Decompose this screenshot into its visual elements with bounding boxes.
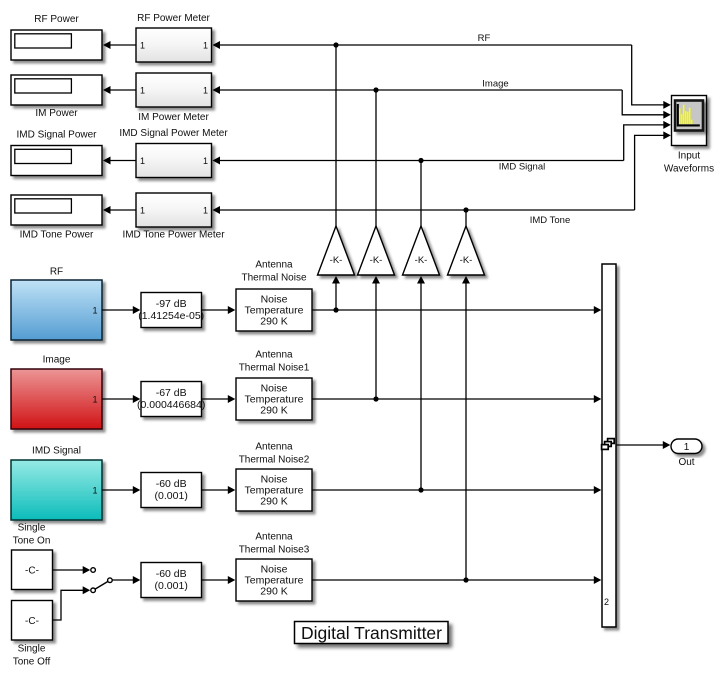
svg-text:IMD Tone: IMD Tone	[530, 215, 570, 226]
wire gain3 input vertical	[420, 283, 422, 490]
svg-text:IMD Tone Power: IMD Tone Power	[20, 230, 94, 241]
arrowhead into noise4	[228, 576, 236, 584]
svg-text:-K-: -K-	[415, 255, 428, 266]
arrowhead gain1 input	[332, 276, 340, 284]
arrowhead into noise1	[228, 306, 236, 314]
display IM Power	[11, 75, 102, 119]
wire IMD Signal net vertical to scope	[624, 125, 666, 161]
wire gain4 output vertical	[465, 210, 467, 226]
svg-text:Single: Single	[18, 644, 46, 655]
arrowhead into display3	[103, 157, 111, 165]
outport Out	[671, 439, 702, 468]
svg-text:1: 1	[140, 156, 145, 166]
constant Single Tone On	[12, 523, 53, 590]
gain block -60 dB row3	[141, 473, 202, 508]
svg-text:-K-: -K-	[330, 255, 343, 266]
subsystem RF Power Meter	[136, 13, 212, 62]
wire const Off to switch	[53, 590, 85, 620]
svg-text:290 K: 290 K	[260, 405, 287, 417]
junction dot Image net	[373, 87, 378, 92]
junction dot noise2 out	[373, 396, 378, 401]
arrowhead into meter2	[213, 86, 221, 94]
svg-text:Thermal Noise: Thermal Noise	[241, 273, 306, 284]
arrowhead into dB3	[133, 486, 141, 494]
wire gain3 output vertical	[420, 161, 422, 227]
svg-text:IMD Tone Power Meter: IMD Tone Power Meter	[122, 230, 225, 241]
source block RF	[11, 267, 102, 341]
arrowhead into display2	[103, 86, 111, 94]
svg-text:2: 2	[604, 597, 609, 607]
wire IMD Tone net vertical to scope	[635, 135, 666, 210]
arrowhead into concat row1	[594, 306, 602, 314]
svg-text:1: 1	[140, 85, 145, 95]
svg-text:IM Power Meter: IM Power Meter	[138, 112, 209, 123]
svg-text:1: 1	[203, 40, 208, 50]
arrowhead into meter3	[213, 157, 221, 165]
wire gain1 output vertical	[335, 45, 337, 226]
gain triangle -K- 4	[448, 226, 485, 275]
svg-text:IMD Signal Power Meter: IMD Signal Power Meter	[119, 128, 228, 139]
svg-text:(0.001): (0.001)	[155, 490, 188, 502]
wire concat to Out	[616, 444, 665, 446]
svg-text:1: 1	[140, 40, 145, 50]
arrowhead switch upper contact	[83, 566, 91, 574]
svg-text:Input: Input	[678, 151, 700, 162]
svg-text:Thermal Noise3: Thermal Noise3	[239, 545, 310, 556]
svg-text:Out: Out	[678, 457, 694, 468]
manual switch	[91, 568, 112, 593]
svg-text:290 K: 290 K	[260, 316, 287, 328]
svg-text:1: 1	[92, 394, 97, 404]
junction dot RF net	[333, 42, 338, 47]
gain block -97 dB	[138, 293, 204, 328]
svg-text:Waveforms: Waveforms	[664, 164, 714, 175]
arrowhead into dB4	[133, 576, 141, 584]
constant Single Tone Off	[12, 601, 53, 668]
gain block -60 dB row4	[141, 563, 202, 598]
svg-text:IM Power: IM Power	[35, 108, 78, 119]
scope icon spectrum	[675, 101, 703, 131]
subsystem IMD Signal Power Meter	[119, 128, 228, 178]
wire meter1 to display1	[109, 44, 136, 46]
concatenate block	[602, 264, 616, 627]
arrowhead into noise3	[228, 486, 236, 494]
arrowhead into meter4	[213, 206, 221, 214]
wire IMD source to dB3	[102, 489, 135, 491]
subsystem IMD Tone Power Meter	[122, 193, 225, 241]
svg-text:-60 dB: -60 dB	[156, 478, 187, 490]
svg-text:Digital Transmitter: Digital Transmitter	[301, 623, 442, 643]
svg-text:1: 1	[92, 485, 97, 495]
junction dot IMD Signal net	[418, 158, 423, 163]
svg-text:Thermal Noise1: Thermal Noise1	[239, 363, 310, 374]
svg-text:Tone Off: Tone Off	[13, 657, 51, 668]
wire gain2 input vertical	[375, 283, 377, 399]
svg-text:290 K: 290 K	[260, 586, 287, 598]
svg-text:Antenna: Antenna	[255, 442, 293, 453]
wire RF net horizontal	[219, 44, 632, 46]
wire Image net horizontal	[219, 89, 622, 91]
svg-text:RF: RF	[478, 33, 491, 44]
svg-text:-67 dB: -67 dB	[156, 387, 187, 399]
wire meter3 to display3	[109, 160, 136, 162]
arrowhead scope port2	[663, 111, 671, 119]
wire noise3 to concat	[312, 489, 596, 491]
wire RF net vertical to scope	[632, 45, 666, 105]
wire dB1 to noise1	[202, 309, 230, 311]
wire noise4 to concat	[312, 579, 596, 581]
arrowhead into noise2	[228, 395, 236, 403]
source block Image	[11, 355, 102, 430]
arrowhead switch lower contact	[83, 586, 91, 594]
wire gain4 input vertical	[465, 283, 467, 580]
arrowhead into meter1	[213, 41, 221, 49]
arrowhead into concat row2	[594, 395, 602, 403]
arrowhead into display4	[103, 206, 111, 214]
svg-text:1: 1	[203, 85, 208, 95]
svg-text:1: 1	[203, 156, 208, 166]
svg-text:Antenna: Antenna	[255, 350, 293, 361]
wire RF source to dB1	[102, 309, 135, 311]
gain triangle -K- 2	[358, 226, 395, 275]
arrowhead gain2 input	[372, 276, 380, 284]
wire gain2 output vertical	[375, 90, 377, 226]
wire dB3 to noise3	[202, 489, 230, 491]
svg-text:-K-: -K-	[460, 255, 473, 266]
wire Image source to dB2	[102, 398, 135, 400]
svg-text:Antenna: Antenna	[255, 532, 293, 543]
svg-text:Single: Single	[18, 523, 46, 534]
svg-text:IMD Signal: IMD Signal	[32, 446, 81, 457]
svg-text:-C-: -C-	[25, 616, 39, 627]
arrowhead into concat row3	[594, 486, 602, 494]
junction dot noise4 out	[463, 577, 468, 582]
subsystem IM Power Meter	[136, 73, 212, 123]
svg-text:Image: Image	[43, 355, 71, 366]
junction dot noise3 out	[418, 487, 423, 492]
svg-text:-C-: -C-	[25, 566, 39, 577]
concatenate stack icon	[602, 439, 615, 450]
arrowhead scope port1	[663, 101, 671, 109]
arrowhead gain3 input	[417, 276, 425, 284]
svg-text:IMD Signal: IMD Signal	[499, 162, 545, 173]
gain block -67 dB	[137, 382, 205, 417]
wire dB4 to noise4	[202, 579, 230, 581]
arrowhead into concat row4	[594, 576, 602, 584]
svg-text:290 K: 290 K	[260, 496, 287, 508]
svg-text:IMD Signal Power: IMD Signal Power	[16, 130, 97, 141]
svg-text:1: 1	[203, 205, 208, 215]
svg-text:(0.000446684): (0.000446684)	[137, 399, 205, 411]
arrowhead into display1	[103, 41, 111, 49]
svg-text:RF Power: RF Power	[34, 14, 79, 25]
wire dB2 to noise2	[202, 398, 230, 400]
wire IMD Tone net horizontal	[219, 209, 635, 211]
arrowhead into Out	[663, 441, 671, 449]
wire meter2 to display2	[109, 89, 136, 91]
junction dot IMD Tone net	[463, 207, 468, 212]
wire IMD Signal net horizontal	[219, 160, 624, 162]
svg-text:-60 dB: -60 dB	[156, 568, 187, 580]
svg-text:Tone On: Tone On	[13, 536, 51, 547]
wire meter4 to display4	[109, 209, 136, 211]
display IMD Signal Power	[11, 130, 102, 176]
subsystem Antenna Thermal Noise1	[236, 350, 312, 421]
wire gain1 input vertical	[335, 283, 337, 310]
arrowhead scope port4	[663, 131, 671, 139]
arrowhead into dB2	[133, 395, 141, 403]
svg-text:RF Power Meter: RF Power Meter	[137, 13, 210, 24]
annotation Digital Transmitter	[295, 622, 449, 644]
wire switch to dB4	[112, 579, 134, 581]
scope block Input Waveforms	[664, 96, 714, 175]
svg-text:Image: Image	[482, 79, 508, 90]
svg-text:1: 1	[684, 442, 690, 453]
svg-text:(0.001): (0.001)	[155, 580, 188, 592]
subsystem Antenna Thermal Noise3	[236, 532, 312, 602]
svg-text:1: 1	[140, 205, 145, 215]
gain triangle -K- 1	[318, 226, 355, 275]
svg-text:Thermal Noise2: Thermal Noise2	[239, 455, 310, 466]
arrowhead gain4 input	[462, 276, 470, 284]
source block IMD Signal	[11, 446, 102, 521]
svg-text:-K-: -K-	[370, 255, 383, 266]
svg-text:-97 dB: -97 dB	[156, 298, 187, 310]
svg-text:Antenna: Antenna	[255, 260, 293, 271]
wire noise1 to concat	[312, 309, 596, 311]
wire Image net vertical to scope	[622, 90, 665, 115]
svg-text:RF: RF	[50, 267, 63, 278]
junction dot noise1 out	[333, 307, 338, 312]
display IMD Tone Power	[11, 195, 102, 241]
gain triangle -K- 3	[403, 226, 440, 275]
wire noise2 to concat	[312, 398, 596, 400]
svg-text:(1.41254e-05): (1.41254e-05)	[138, 310, 204, 322]
subsystem Antenna Thermal Noise2	[236, 442, 312, 512]
wire const On to switch	[53, 569, 85, 571]
arrowhead scope port3	[663, 121, 671, 129]
svg-text:1: 1	[92, 305, 97, 315]
arrowhead into dB1	[133, 306, 141, 314]
subsystem Antenna Thermal Noise	[236, 260, 312, 332]
display RF Power	[11, 14, 102, 60]
